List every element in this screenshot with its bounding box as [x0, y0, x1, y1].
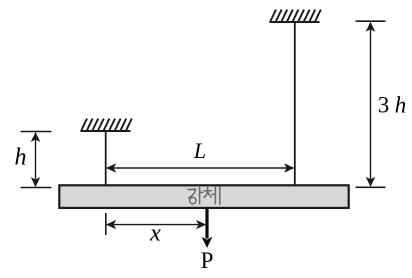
svg-text:h: h	[15, 145, 27, 171]
dimension x left tick	[105, 213, 107, 235]
dimension 3h up arrowhead	[366, 22, 376, 32]
label h	[15, 145, 27, 171]
left fixed support baseline	[81, 130, 131, 132]
dimension 3h line	[370, 23, 372, 186]
svg-text:3h: 3h	[378, 92, 407, 117]
dimension L line	[107, 167, 293, 169]
dimension x line	[107, 224, 204, 226]
right fixed support hatching	[270, 10, 321, 22]
label 강체 (rigid body) drawn strokes	[188, 187, 220, 204]
dimension x left arrowhead	[106, 220, 116, 229]
load P arrowhead	[202, 237, 213, 248]
label 3h	[378, 92, 407, 117]
svg-text:P: P	[201, 248, 214, 273]
label P	[201, 248, 214, 273]
left wire	[105, 131, 107, 187]
강 : ㅏ	[200, 187, 203, 203]
dimension 3h bottom tick	[356, 186, 386, 188]
dimension h top tick	[21, 131, 52, 133]
체 : ㅊ	[204, 187, 211, 197]
dimension h down arrowhead	[31, 177, 41, 187]
rigid bar	[59, 185, 348, 208]
right wire	[294, 22, 296, 187]
dimension L left arrowhead	[106, 163, 116, 172]
강 : ㅇ	[190, 197, 196, 203]
dimension h line	[35, 133, 37, 186]
left fixed support hatching	[81, 119, 132, 131]
dimension h up arrowhead	[31, 132, 41, 142]
svg-text:L: L	[193, 138, 206, 163]
load P arrow shaft	[205, 208, 208, 238]
right fixed support baseline	[270, 21, 320, 23]
dimension x right arrowhead	[196, 220, 206, 229]
label L	[193, 138, 206, 163]
svg-text:x: x	[149, 220, 161, 246]
체 : ㅔ	[212, 187, 220, 204]
dimension h bottom tick	[21, 187, 52, 189]
label x	[149, 220, 161, 246]
강 : ㄱ	[188, 189, 196, 198]
dimension L right arrowhead	[284, 163, 294, 172]
dimension 3h down arrowhead	[366, 177, 376, 187]
dimension 3h top tick	[356, 20, 386, 22]
